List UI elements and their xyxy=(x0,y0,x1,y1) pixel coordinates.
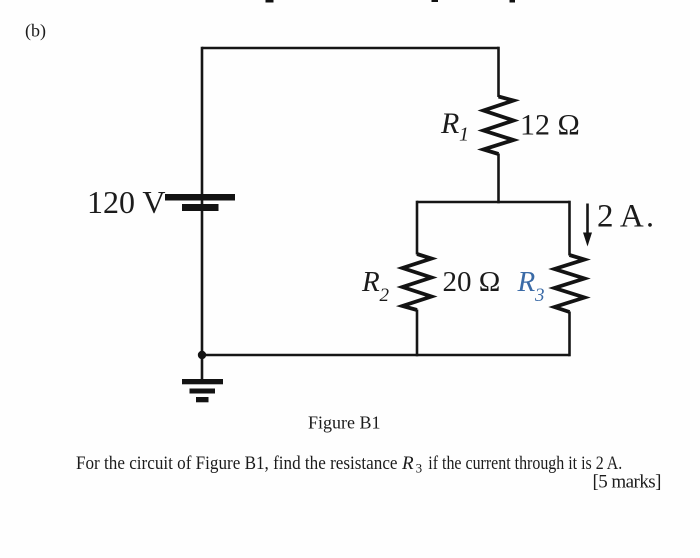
svg-text:For the circuit of Figure B1,: For the circuit of Figure B1, find the r… xyxy=(76,453,398,474)
svg-text:120 V: 120 V xyxy=(87,184,166,220)
svg-text:3: 3 xyxy=(416,461,423,476)
svg-text:2: 2 xyxy=(380,285,390,306)
svg-text:2 A: 2 A xyxy=(597,199,644,235)
svg-text:R: R xyxy=(440,107,459,140)
svg-text:[5 marks]: [5 marks] xyxy=(593,471,661,492)
svg-text:1: 1 xyxy=(459,124,469,146)
svg-text:R: R xyxy=(361,266,380,298)
svg-text:20 Ω: 20 Ω xyxy=(443,266,501,298)
svg-text:Figure B1: Figure B1 xyxy=(308,413,381,433)
svg-text:R: R xyxy=(401,453,414,474)
svg-text:.: . xyxy=(646,198,654,234)
svg-text:(b): (b) xyxy=(25,21,46,42)
svg-text:R: R xyxy=(517,266,536,298)
svg-text:3: 3 xyxy=(534,285,545,306)
svg-text:12 Ω: 12 Ω xyxy=(520,109,580,142)
